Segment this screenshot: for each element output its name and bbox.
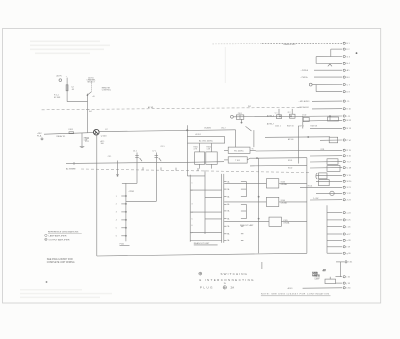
wire bus from Q100	[99, 130, 236, 132]
wire row A2	[265, 136, 330, 139]
ground	[81, 147, 84, 149]
chassis dashed line lower	[81, 169, 310, 173]
svg-text:- MIC AUDIO: - MIC AUDIO	[299, 106, 310, 109]
svg-text:W2: W2	[248, 106, 251, 108]
wire row	[320, 139, 342, 141]
relay K105 coil box	[269, 217, 281, 226]
pin F	[343, 48, 345, 50]
wire row	[331, 48, 342, 50]
component box	[319, 173, 328, 179]
svg-text:R109 2K: R109 2K	[311, 125, 318, 127]
svg-text:A1 P5: A1 P5	[57, 74, 62, 77]
wire	[224, 149, 228, 151]
svg-text:P101: P101	[120, 243, 124, 245]
module box right edge	[306, 158, 308, 254]
wire drop	[253, 130, 255, 147]
svg-text:K102: K102	[288, 168, 292, 170]
strip pin ticks	[224, 181, 227, 183]
wire row D	[316, 91, 342, 93]
pin c	[343, 226, 345, 228]
strip ticks lower	[241, 225, 244, 227]
wire turn	[122, 182, 137, 184]
wire K105 left	[224, 221, 269, 223]
wire row K101	[250, 157, 307, 160]
pin Y	[343, 192, 345, 194]
TB101 stub 2	[121, 203, 126, 205]
oscillator module A1 box	[187, 137, 224, 143]
wire	[211, 164, 213, 168]
terminal circle	[309, 83, 312, 86]
crystal symbol	[328, 64, 332, 66]
switch S1 blade	[87, 92, 91, 95]
node E4 tick	[86, 108, 89, 110]
strip wire left	[189, 175, 191, 242]
strip row 1	[190, 189, 221, 191]
svg-text:7: 7	[192, 233, 193, 235]
svg-text:CONTROL: CONTROL	[102, 90, 111, 92]
svg-text:P.5-1: P.5-1	[85, 138, 89, 140]
wire	[199, 143, 201, 152]
GROUP: see dwg note	[47, 259, 75, 264]
svg-text:R107 1K: R107 1K	[287, 125, 294, 127]
wire vertical	[298, 126, 300, 164]
wire row	[316, 192, 342, 194]
wire +28V	[44, 133, 94, 135]
brace	[316, 173, 317, 179]
wire	[199, 164, 201, 168]
junction dots TB101	[125, 195, 126, 196]
ground	[116, 174, 119, 176]
pin Z	[343, 199, 345, 201]
svg-text:4 PWR: 4 PWR	[129, 191, 135, 193]
wire row	[310, 155, 342, 157]
pin T	[343, 161, 345, 163]
pin G	[343, 55, 345, 57]
GROUP: component labels	[37, 43, 324, 290]
wire vertical feed	[258, 158, 260, 253]
svg-text:C 1: C 1	[275, 113, 278, 115]
svg-text:A1 SPARE: A1 SPARE	[66, 168, 76, 171]
svg-text:R111: R111	[321, 149, 325, 151]
filter module box	[236, 115, 244, 119]
ground	[80, 145, 85, 147]
svg-text:A1 FL1: A1 FL1	[196, 133, 202, 136]
wire vertical	[315, 57, 317, 64]
caption tick vertical	[261, 262, 263, 269]
svg-text:SELECT: SELECT	[87, 82, 95, 84]
lamp resistor box	[325, 279, 336, 284]
wire turn	[187, 175, 205, 177]
capacitor lead below	[241, 119, 243, 122]
svg-text:A1TB1-4: A1TB1-4	[267, 115, 274, 118]
svg-text:OUTPUT AMPLIFIER: OUTPUT AMPLIFIER	[49, 238, 70, 241]
solder dot	[356, 52, 358, 54]
pin A	[343, 69, 345, 71]
svg-text:LRU3A: LRU3A	[283, 222, 290, 225]
capacitor C106	[328, 117, 339, 121]
wire vertical	[330, 49, 332, 57]
tick on dashed line	[142, 167, 144, 170]
svg-text:Q 100: Q 100	[101, 135, 108, 137]
svg-text:R 2: R 2	[288, 112, 291, 114]
svg-text:3: 3	[192, 204, 193, 206]
wire row C105	[303, 119, 342, 122]
TB101 stub 6	[121, 235, 126, 237]
svg-text:CHASSIS GND: CHASSIS GND	[283, 43, 296, 46]
wire	[224, 159, 228, 161]
component box level adj	[327, 166, 340, 172]
wire vertical	[302, 116, 304, 128]
wire	[329, 277, 331, 279]
junction	[241, 122, 242, 123]
svg-text:O5L 2: O5L 2	[221, 128, 226, 130]
tick on dashed line	[175, 168, 177, 171]
strip edge double line	[221, 174, 223, 243]
svg-text:4: 4	[116, 220, 117, 222]
component box	[329, 137, 338, 143]
pin X	[343, 186, 345, 188]
pin D	[343, 91, 345, 93]
pin h	[345, 261, 347, 263]
GROUP: legend reference designations	[45, 230, 82, 241]
svg-text:6: 6	[192, 225, 193, 227]
pin N	[343, 127, 345, 129]
lead	[291, 109, 293, 114]
tick on dashed line	[160, 167, 162, 170]
svg-text:E 101: E 101	[308, 186, 312, 188]
wire drop	[155, 163, 157, 202]
wire vertical	[340, 262, 342, 277]
TB101 stub 5	[121, 227, 126, 229]
terminal circle	[231, 115, 234, 118]
module box left edge	[96, 135, 98, 256]
wire	[329, 116, 331, 120]
legend lamp symbol	[45, 234, 47, 236]
reference dot	[46, 281, 48, 283]
svg-text:A2 100: A2 100	[288, 138, 293, 141]
svg-text:5: 5	[192, 219, 193, 221]
svg-text:FL1 455KC: FL1 455KC	[234, 151, 244, 153]
svg-text:5: 5	[116, 228, 117, 230]
component box R110	[303, 117, 309, 121]
svg-text:LAMP AMPLIFIER: LAMP AMPLIFIER	[49, 234, 67, 237]
output amplifier Q100	[94, 129, 100, 135]
P101 underline	[120, 245, 130, 247]
svg-text:C107 .1: C107 .1	[298, 125, 304, 127]
module box bottom edge	[97, 253, 307, 256]
pin H	[343, 62, 345, 64]
pin i	[343, 276, 345, 278]
svg-text:4: 4	[192, 212, 193, 214]
svg-text:+ MIC AUDIO: + MIC AUDIO	[299, 100, 311, 103]
pin S	[343, 155, 345, 157]
wire	[247, 158, 250, 160]
svg-text:SEE DWG 1234567 FOR: SEE DWG 1234567 FOR	[47, 259, 73, 261]
svg-text:2 +28V: 2 +28V	[313, 198, 319, 200]
capacitor C7 stack	[155, 153, 157, 163]
wire turn	[126, 200, 156, 202]
wire vertical	[326, 205, 328, 253]
svg-text:.05: .05	[71, 89, 74, 91]
relay K104 coil box	[266, 197, 278, 206]
pin W	[343, 180, 345, 182]
pin J	[343, 100, 345, 102]
svg-text:C105 .1: C105 .1	[275, 125, 281, 127]
strip row 4	[205, 218, 222, 220]
filter FL1 box	[228, 147, 250, 153]
junction	[258, 196, 259, 197]
pin f	[343, 246, 345, 248]
relay K103 coil box	[266, 179, 278, 188]
wire row	[336, 282, 343, 284]
pin R	[343, 149, 345, 151]
wire chassis row	[66, 162, 187, 163]
terminal strip TB101	[125, 183, 127, 241]
wire K104 left	[224, 201, 266, 203]
wire K103 right	[279, 182, 307, 184]
svg-text:T 101: T 101	[235, 160, 240, 162]
GROUP: bottom caption	[199, 272, 254, 290]
svg-text:A1TB1-7: A1TB1-7	[267, 122, 274, 125]
svg-text:REFERENCE DESIGNATIONS: REFERENCE DESIGNATIONS	[48, 230, 79, 233]
pin d	[343, 233, 345, 235]
svg-text:2: 2	[116, 204, 117, 206]
node tick	[73, 162, 75, 165]
wire row B	[314, 76, 342, 78]
svg-text:O5 A1R5: O5 A1R5	[204, 127, 211, 130]
strip wire mid	[204, 170, 206, 234]
caption symbol 1	[199, 272, 202, 275]
capacitor C6 stack	[136, 153, 138, 163]
wire row	[310, 199, 342, 201]
junction	[117, 175, 118, 176]
svg-text:NOTE: SEE DWG 1234567 FOR CONT: NOTE: SEE DWG 1234567 FOR CONTINUATION	[261, 292, 329, 295]
svg-text:RELAY K1: RELAY K1	[57, 135, 66, 138]
wire row	[310, 161, 342, 163]
wire	[250, 149, 256, 152]
svg-text:- PWR A: - PWR A	[301, 76, 309, 79]
component box	[319, 180, 330, 186]
wire row mic-	[312, 108, 342, 110]
svg-text:READOUT UNIT: READOUT UNIT	[194, 242, 210, 245]
svg-text:PLUG: PLUG	[200, 286, 213, 290]
bracket ladder 1	[241, 181, 247, 183]
svg-text:T5: T5	[252, 149, 254, 151]
transformer T101 box	[228, 157, 247, 163]
resistor R106	[206, 152, 217, 164]
svg-text:A1 E1: A1 E1	[288, 287, 293, 290]
component box C110	[277, 115, 282, 119]
wire K104 right	[279, 201, 307, 203]
svg-text:A1 W1: A1 W1	[148, 106, 153, 109]
GROUP: pin number labels	[346, 43, 354, 290]
svg-text:100: 100	[101, 143, 104, 145]
pin j	[343, 282, 345, 284]
pin K	[343, 108, 345, 110]
svg-text:COMPLETE UNIT WIRING: COMPLETE UNIT WIRING	[47, 262, 75, 264]
pin P	[343, 139, 345, 141]
resistor R1	[66, 85, 68, 91]
svg-text:& INTERCONNECTING: & INTERCONNECTING	[199, 278, 254, 282]
wire vertical	[186, 125, 188, 136]
wire dashed row E left faint	[212, 43, 262, 45]
pin V	[343, 174, 345, 176]
wire row	[336, 276, 343, 278]
wire	[87, 94, 89, 133]
junction	[187, 130, 188, 131]
wire row chassis	[303, 287, 342, 289]
svg-text:C7 .1: C7 .1	[152, 151, 156, 153]
svg-text:E7: E7	[106, 129, 108, 131]
svg-text:C6 .1: C6 .1	[133, 151, 137, 153]
svg-text:LAMP: LAMP	[315, 278, 321, 281]
TB101 stub 1	[121, 195, 126, 197]
component box R112	[290, 114, 296, 118]
wire row C	[312, 84, 342, 86]
wire row	[316, 56, 342, 58]
GROUP: ghost print-through top left	[30, 41, 110, 55]
switch arrow	[159, 158, 161, 161]
wire row mic+	[312, 100, 342, 102]
switch S1 contact	[87, 95, 88, 96]
lead	[278, 109, 280, 115]
svg-text:+ PWR A: + PWR A	[301, 69, 309, 72]
pin U	[343, 167, 345, 169]
wire	[211, 143, 213, 152]
wire row	[316, 62, 342, 64]
svg-text:1: 1	[192, 182, 193, 184]
pin B	[343, 76, 345, 78]
fuse F101	[69, 132, 74, 134]
pin e	[343, 239, 345, 241]
pin g	[343, 252, 345, 254]
bracket ladder 2	[241, 203, 247, 205]
junction dots row116	[279, 116, 280, 117]
wire	[66, 78, 68, 102]
GROUP: connector J1 pin circles	[343, 42, 347, 289]
svg-text:K101: K101	[288, 160, 292, 162]
pin a	[343, 212, 345, 214]
ladder stubs	[327, 212, 342, 214]
wire row to connector	[233, 115, 342, 118]
strip row 5	[190, 232, 221, 234]
svg-text:E4: E4	[89, 111, 91, 113]
wire vertical	[186, 143, 188, 176]
caption symbol 2	[223, 286, 226, 289]
resistor R105	[195, 152, 205, 164]
pin L	[343, 115, 345, 117]
diagonal wire	[246, 126, 252, 131]
wire	[67, 101, 87, 103]
legend output symbol	[45, 238, 47, 240]
wire row	[316, 174, 342, 176]
readout unit underline	[194, 244, 218, 246]
lamp E1	[59, 79, 62, 82]
svg-text:2: 2	[192, 190, 193, 192]
pin k	[343, 287, 345, 289]
junction	[256, 158, 257, 159]
tick on dashed line	[197, 168, 199, 171]
wire dashed row E	[262, 42, 342, 44]
wire row	[310, 127, 342, 129]
switch S1 actuator dashed	[90, 83, 92, 92]
svg-text:E2 30K: E2 30K	[54, 97, 61, 99]
paper crease	[224, 47, 226, 83]
strip row 6	[190, 240, 221, 242]
svg-text:1 100: 1 100	[302, 114, 306, 116]
wire K103 left	[224, 182, 266, 184]
svg-text:READOUT LAMP: READOUT LAMP	[240, 224, 254, 227]
GROUP: ghost print-through bottom left	[20, 289, 112, 298]
svg-text:C8 .5: C8 .5	[161, 146, 165, 148]
strip row 2	[205, 197, 222, 199]
svg-text:P1-A: P1-A	[37, 135, 42, 138]
capacitor C5 lead	[117, 161, 119, 175]
wire row K102	[250, 164, 307, 167]
wire row	[310, 167, 342, 169]
wire drop	[136, 163, 138, 184]
TB101 stub 4	[121, 219, 126, 221]
pin b	[343, 219, 345, 221]
svg-text:3: 3	[116, 212, 117, 214]
pin M	[343, 119, 345, 121]
svg-text:A1 OSC 455KC: A1 OSC 455KC	[199, 139, 214, 142]
wire K105 right	[281, 221, 307, 223]
wire drop	[235, 130, 237, 147]
wire vertical	[315, 85, 317, 92]
pin E	[343, 42, 345, 44]
svg-text:Z101: Z101	[238, 113, 242, 115]
wire stub	[81, 133, 83, 146]
svg-text:LRU3A: LRU3A	[281, 202, 288, 205]
wire row	[256, 149, 342, 152]
svg-text:C3 1: C3 1	[108, 156, 112, 158]
svg-text:P.5-2: P.5-2	[85, 141, 89, 143]
junction	[308, 136, 309, 137]
TB101 stub 3	[121, 211, 126, 213]
junction	[258, 218, 259, 219]
wire row A	[314, 69, 342, 71]
wire row	[300, 186, 342, 188]
lamp DS1	[330, 191, 334, 195]
svg-text:LRU3A: LRU3A	[281, 183, 288, 186]
wire row	[316, 180, 342, 182]
switch arrow	[140, 158, 142, 161]
svg-text:F101: F101	[69, 129, 73, 131]
wire row	[336, 261, 344, 263]
pin C	[343, 83, 345, 85]
svg-text:2A: 2A	[231, 286, 235, 290]
connector pin P1-A	[41, 138, 43, 140]
svg-text:1: 1	[116, 196, 117, 198]
GROUP: title note	[261, 292, 331, 296]
strip row 3	[190, 211, 221, 213]
svg-text:6: 6	[116, 236, 117, 238]
chassis dashed line upper	[42, 107, 300, 110]
sheet border frame	[3, 29, 381, 304]
component box	[327, 159, 338, 165]
legend underline	[48, 232, 82, 234]
